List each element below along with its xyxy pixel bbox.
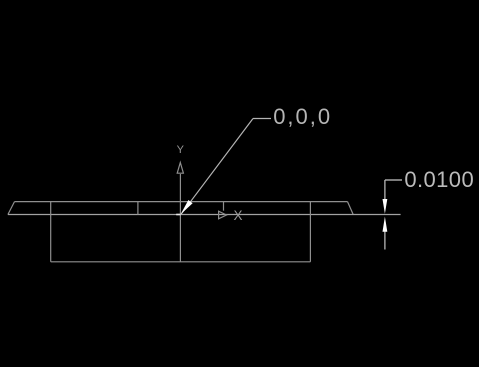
wire dim leader horizontal (385, 179, 402, 181)
wire left chamfer (8, 202, 15, 215)
wire main horizontal edge / X extension (8, 214, 401, 216)
wire flange seam right (223, 202, 225, 211)
node X axis arrowhead (219, 211, 227, 219)
wire flange seam left (137, 202, 139, 215)
wire leader diagonal (181, 119, 253, 215)
wire box right edge (309, 202, 311, 262)
node dim arrow lower (383, 217, 388, 232)
wire flange top edge (15, 201, 348, 203)
svg-text:X: X (233, 208, 242, 223)
node origin leader arrowhead (181, 200, 193, 214)
wire origin highlight tick (176, 214, 180, 216)
wire box left edge (50, 202, 52, 262)
wire Y axis / center line (179, 174, 181, 262)
svg-text:Y: Y (177, 144, 185, 156)
wire leader horizontal (253, 118, 271, 120)
node dim arrow upper (383, 199, 388, 214)
wire right chamfer (348, 202, 354, 215)
wire dim leader vertical (384, 180, 386, 201)
wire box bottom edge (51, 261, 311, 263)
svg-text:0,0,0: 0,0,0 (273, 104, 332, 129)
wire dim lower extension (384, 231, 386, 250)
svg-text:0.0100: 0.0100 (404, 167, 474, 192)
node Y axis arrowhead (177, 163, 183, 174)
